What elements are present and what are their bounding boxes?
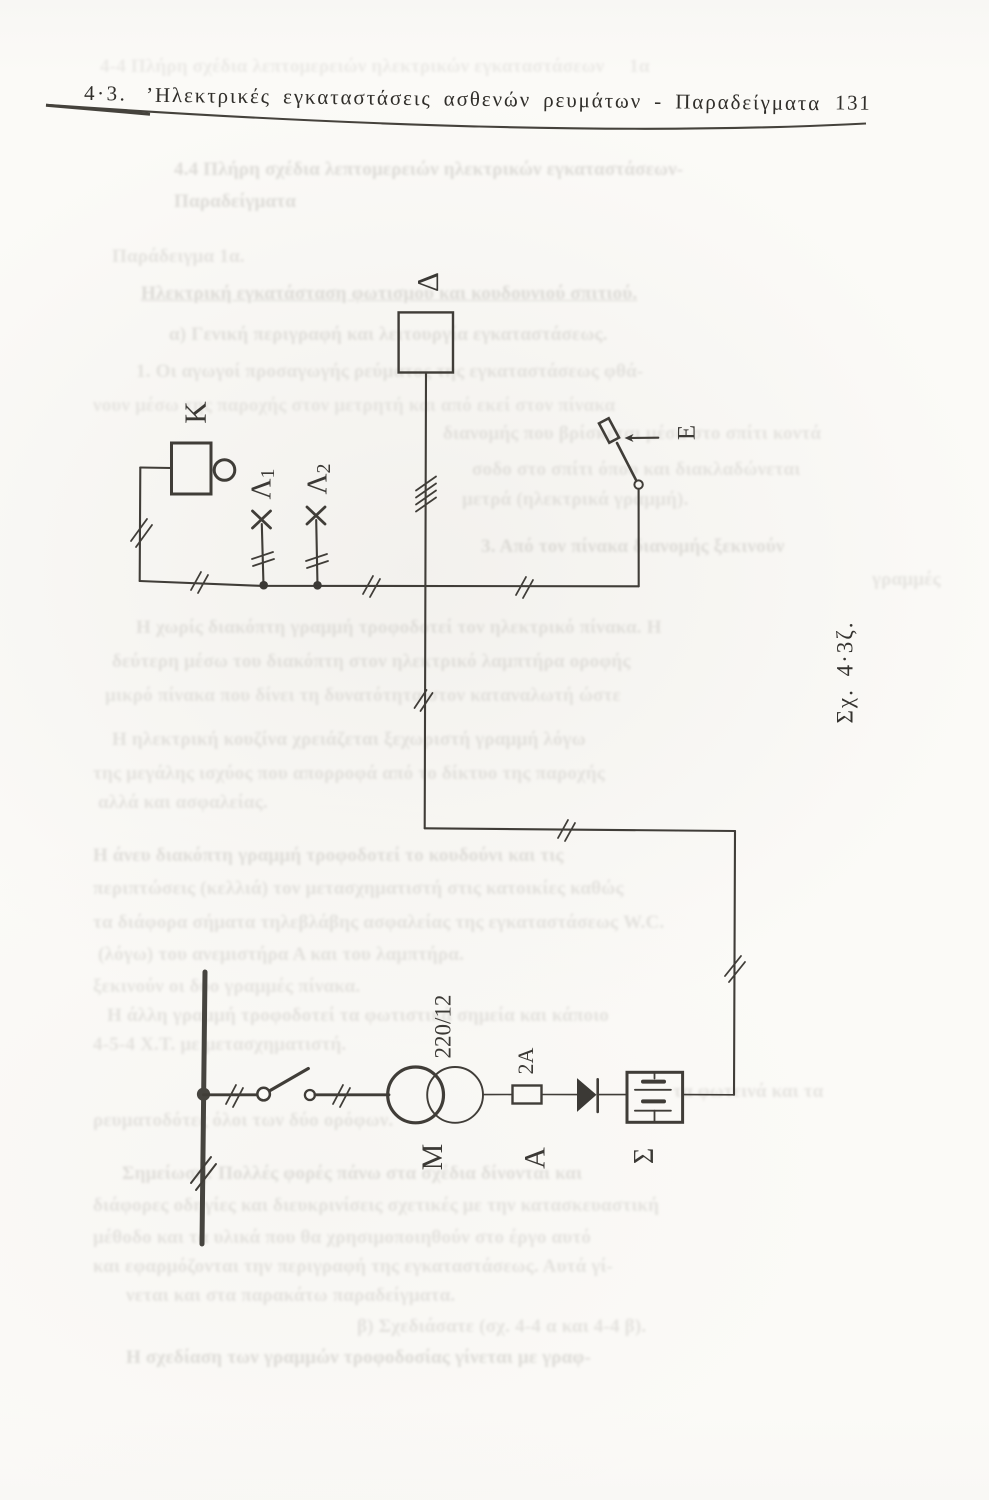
svg-text:Κ: Κ [178,401,213,424]
header rule [46,105,866,129]
page header [0,80,989,122]
hatch switch-transformer [333,1085,350,1107]
fuse A body [513,1086,542,1104]
transformer M primary circle [388,1067,444,1123]
svg-text:Α: Α [518,1147,551,1169]
wire: right drop to battery [734,831,735,1095]
switch E pivot circle [634,480,642,488]
diode D anode triangle [577,1078,597,1112]
wire: lamp L1 drop [262,524,264,585]
svg-text:Λ1: Λ1 [246,468,279,499]
junction dot L1 [259,581,268,590]
label 2A [513,1047,538,1074]
lamp L1 cross [253,511,271,528]
switch E: riser from line [638,489,640,586]
wire: top horizontal distribution line [140,581,639,586]
wire: fuse to diode [542,1094,578,1096]
diode D cathode bar [596,1079,599,1112]
svg-text:220/12: 220/12 [430,995,455,1059]
wire: transformer to fuse [483,1094,513,1096]
wire: left riser to bell K [139,468,142,582]
svg-text:Ε: Ε [674,425,701,440]
svg-text:Σ: Σ [629,1148,660,1164]
wire: lower horizontal run [425,828,735,831]
switch M blade [270,1069,309,1091]
lamp L2 cross [307,507,325,524]
bell-box Δ [399,312,453,372]
hatch on L1 drop [252,552,274,566]
hatch on L2 drop [306,554,328,568]
label Δ [410,272,445,292]
wire: switch to transformer [315,1093,389,1096]
label Σ [629,1148,660,1164]
hatch on top horizontal line (right) [516,577,533,598]
junction dot L2 [313,581,322,590]
label L2 [302,463,335,494]
hatch on top horizontal line (left) [191,572,208,593]
svg-text:Λ2: Λ2 [302,463,335,494]
label 220/12 [430,995,455,1059]
svg-text:Δ: Δ [410,272,445,292]
switch M contact circle [305,1090,315,1100]
transformer M secondary circle [427,1067,483,1123]
hatch on left riser [131,519,152,547]
switch M pivot circle [257,1088,270,1101]
svg-text:2Α: 2Α [513,1047,538,1074]
label K [178,401,213,424]
switch E arrow [625,434,659,442]
wire: busbar to switch [204,1093,258,1096]
bell K gong circle [214,460,235,481]
battery Σ cells [635,1072,671,1122]
caption Σχ. 4.3ζ. [832,620,857,723]
switch E handle [599,418,619,443]
wire: battery to right drop [683,1094,734,1096]
hatch on right drop [725,956,745,982]
hatch (4 conductors) on Δ riser [416,477,436,512]
wire: lamp L2 drop [316,520,317,585]
hatch (2) on Δ riser lower [415,690,433,711]
hatch on top horizontal line (middle) [363,576,380,597]
svg-text:Μ: Μ [416,1144,449,1171]
busbar (mains) [202,972,205,1244]
label L1 [246,468,279,499]
junction dot on busbar [197,1088,210,1101]
wire: into bell K [140,466,171,469]
hatch on lower horizontal run [558,820,575,841]
hatch on busbar [191,1157,216,1190]
hatch busbar-switch [226,1085,243,1107]
label M [416,1144,449,1171]
bell K box [172,443,212,494]
wire: diode to battery [598,1094,627,1096]
label E [674,425,701,440]
bleed-through text from reverse side of page [100,57,820,77]
switch E blade [617,443,636,480]
svg-text:Σχ. 4·3ζ.: Σχ. 4·3ζ. [832,620,857,723]
battery Σ box [627,1072,683,1122]
label A [518,1147,551,1169]
wire: Δ box down to corner [425,373,426,829]
